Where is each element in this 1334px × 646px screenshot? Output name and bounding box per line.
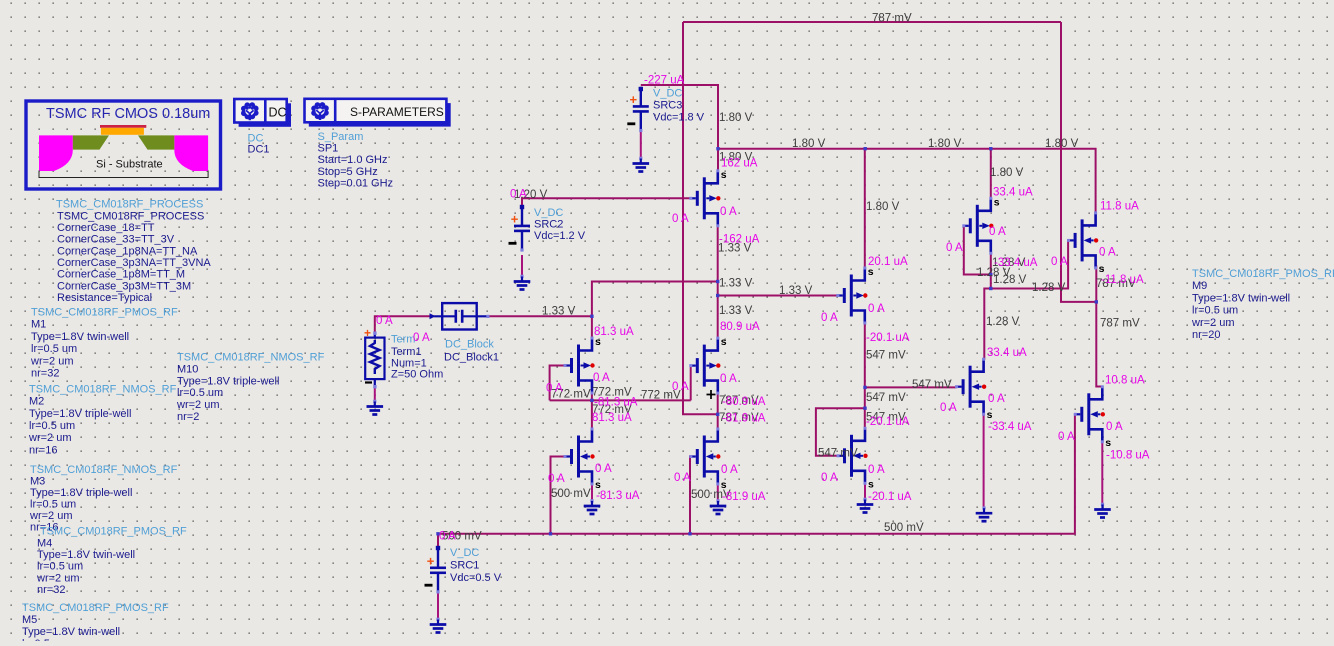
svg-text:s: s	[987, 409, 993, 421]
svg-text:1.33 V: 1.33 V	[542, 306, 576, 318]
wire 1.28V to M9 gate	[991, 240, 1069, 288]
node 1.28V	[989, 287, 992, 290]
substrate drawing right magenta well	[174, 135, 208, 171]
svg-text:-227 uA: -227 uA	[644, 75, 685, 87]
svg-text:1.28 V: 1.28 V	[1032, 282, 1066, 294]
M4 parameters text block	[36, 526, 187, 597]
svg-text:M1: M1	[31, 319, 46, 331]
S-parameters settings text	[318, 131, 394, 190]
svg-text:s: s	[721, 336, 727, 348]
wire 787mV top rail	[683, 21, 1061, 23]
wire SRC1 to rail	[437, 534, 439, 546]
svg-text:1.80 V: 1.80 V	[719, 112, 753, 124]
svg-text:162 uA: 162 uA	[721, 158, 758, 170]
svg-text:0 A: 0 A	[593, 372, 610, 384]
svg-text:CornerCase_1p8M=TT_M: CornerCase_1p8M=TT_M	[57, 269, 185, 281]
svg-text:+: +	[511, 211, 519, 226]
svg-text:Vdc=1.2 V: Vdc=1.2 V	[534, 230, 586, 242]
svg-text:wr=2 um: wr=2 um	[1191, 317, 1235, 329]
svg-text:547 mV: 547 mV	[912, 379, 952, 391]
svg-text:0 A: 0 A	[1058, 431, 1075, 443]
svg-text:33.4 uA: 33.4 uA	[993, 187, 1033, 199]
wire SRC2 bottom to ground	[521, 255, 523, 277]
transistor M6cas	[962, 196, 1000, 255]
svg-text:s: s	[721, 169, 727, 181]
svg-text:CornerCase_33=TT_3V: CornerCase_33=TT_3V	[57, 234, 175, 246]
M5 parameters text block	[22, 602, 169, 646]
svg-text:Type=1.8V twin-well: Type=1.8V twin-well	[22, 626, 120, 638]
svg-text:547 mV: 547 mV	[818, 447, 858, 459]
svg-text:TSMC RF CMOS 0.18um: TSMC RF CMOS 0.18um	[46, 106, 210, 122]
svg-text:CornerCase_1p8NA=TT_NA: CornerCase_1p8NA=TT_NA	[57, 245, 198, 257]
svg-text:nr=20: nr=20	[1192, 329, 1220, 341]
svg-text:-20.1 uA: -20.1 uA	[868, 491, 912, 503]
wire 500mV rail	[438, 414, 1075, 534]
node 1.28V gate tie	[989, 273, 992, 276]
svg-text:547 mV: 547 mV	[866, 392, 906, 404]
voltage source SRC1	[425, 546, 447, 594]
svg-text:1.28 V: 1.28 V	[986, 316, 1020, 328]
svg-text:1.33 V: 1.33 V	[719, 305, 753, 317]
wire M7 gate bias	[689, 457, 691, 534]
svg-text:Si - Substrate: Si - Substrate	[96, 159, 163, 171]
svg-text:0 A: 0 A	[821, 312, 838, 324]
svg-text:0 A: 0 A	[548, 473, 565, 485]
svg-text:TSMC_CM018RF_PMOS_RF: TSMC_CM018RF_PMOS_RF	[22, 602, 169, 614]
svg-text:CornerCase_18=TT: CornerCase_18=TT	[57, 222, 155, 234]
svg-text:TSMC_CM018RF_PROCESS: TSMC_CM018RF_PROCESS	[56, 199, 203, 211]
svg-text:wr=2 um: wr=2 um	[176, 399, 220, 411]
wire M9 source down	[1096, 266, 1102, 387]
capacitor DC_Block1	[430, 303, 490, 329]
svg-text:11.8 uA: 11.8 uA	[1100, 201, 1139, 213]
termination Term1	[364, 326, 385, 388]
S-PARAMETERS simulation controller block	[305, 99, 451, 127]
svg-text:-80.9 uA: -80.9 uA	[722, 396, 766, 408]
wire 1.33V to M2 source	[591, 316, 593, 338]
node 772mV at M2 drain	[590, 399, 593, 402]
transistor M7	[689, 428, 727, 492]
Term1 text	[391, 334, 443, 381]
transistor M6	[689, 336, 727, 395]
svg-text:TSMC_CM018RF_NMOS_RF: TSMC_CM018RF_NMOS_RF	[30, 464, 178, 476]
svg-text:lr=0.5 um: lr=0.5 um	[37, 561, 83, 573]
wire M5cur source to ground	[864, 483, 866, 499]
wire M8 source riser	[864, 149, 866, 268]
svg-text:SRC1: SRC1	[450, 560, 479, 572]
node 787mV at M9 source	[1095, 300, 1098, 303]
svg-text:0 A: 0 A	[1051, 256, 1068, 268]
svg-text:0 A: 0 A	[672, 381, 689, 393]
svg-text:0 A: 0 A	[946, 242, 963, 254]
svg-text:0 A: 0 A	[720, 206, 737, 218]
transistor M1	[689, 169, 727, 228]
svg-text:nr=32: nr=32	[37, 584, 65, 596]
svg-text:lr=0.5 um: lr=0.5 um	[30, 498, 76, 510]
wire SRC3 bottom to ground	[640, 128, 642, 159]
process box title	[46, 106, 210, 122]
M9 parameters text block	[1191, 268, 1334, 341]
svg-text:lr=0.5 um: lr=0.5 um	[177, 387, 223, 399]
transistor M9	[1067, 211, 1105, 275]
svg-text:+: +	[364, 326, 371, 340]
process parameters text block	[56, 199, 211, 304]
svg-text:Start=1.0 GHz: Start=1.0 GHz	[318, 154, 388, 166]
wire 1.33V riser	[592, 282, 718, 317]
svg-text:547 mV: 547 mV	[866, 349, 906, 361]
substrate drawing left magenta well	[39, 135, 73, 171]
wire M4 drain riser	[984, 289, 991, 360]
svg-text:80.9 uA: 80.9 uA	[720, 321, 760, 333]
svg-text:0 A: 0 A	[546, 383, 563, 395]
svg-text:TSMC_CM018RF_PMOS_RF: TSMC_CM018RF_PMOS_RF	[1192, 268, 1334, 280]
svg-text:Resistance=Typical: Resistance=Typical	[57, 292, 152, 304]
ground under M7	[710, 499, 727, 514]
svg-text:1.33 V: 1.33 V	[779, 285, 813, 297]
svg-text:0 A: 0 A	[674, 472, 691, 484]
transistor M8	[836, 266, 874, 325]
plus marker near output node	[707, 390, 716, 399]
wire M4 source to ground	[983, 414, 985, 508]
svg-text:nr=16: nr=16	[29, 444, 57, 456]
M3 parameters text block	[29, 464, 178, 533]
svg-text:Term: Term	[391, 334, 415, 346]
svg-text:-81.9 uA: -81.9 uA	[722, 491, 766, 503]
svg-text:0 A: 0 A	[988, 393, 1005, 405]
svg-text:TSMC_CM018RF_PMOS_RF: TSMC_CM018RF_PMOS_RF	[40, 526, 187, 538]
svg-text:0 A: 0 A	[720, 373, 737, 385]
substrate label Si - Substrate	[96, 159, 163, 171]
svg-text:500 mV: 500 mV	[884, 522, 924, 534]
wire M10out source to ground	[1101, 442, 1103, 505]
node 547mV	[863, 386, 866, 389]
svg-text:TSMC_CM018RF_PMOS_RF: TSMC_CM018RF_PMOS_RF	[31, 307, 178, 319]
svg-text:Type=1.8V triple-well: Type=1.8V triple-well	[30, 487, 132, 499]
svg-text:-20.1 uA: -20.1 uA	[866, 416, 910, 428]
wire SRC3 to 1.80V corner	[641, 85, 718, 149]
svg-text:DC_Block1: DC_Block1	[444, 352, 499, 364]
svg-text:1.80 V: 1.80 V	[990, 167, 1024, 179]
svg-text:SRC3: SRC3	[653, 100, 682, 112]
svg-text:-81.9 uA: -81.9 uA	[722, 413, 766, 425]
svg-text:1.80 V: 1.80 V	[928, 138, 962, 150]
svg-text:0 A: 0 A	[672, 213, 689, 225]
svg-text:-33.4 uA: -33.4 uA	[994, 257, 1038, 269]
substrate outline	[39, 171, 208, 178]
svg-text:0 A: 0 A	[1106, 421, 1123, 433]
node 500mV rail at SRC1	[436, 532, 439, 535]
ground under SRC1	[430, 618, 447, 633]
M10 parameters text block	[176, 352, 325, 424]
svg-text:+: +	[630, 92, 638, 107]
svg-text:0 A: 0 A	[1099, 247, 1116, 259]
M1 parameters text block	[30, 307, 178, 380]
svg-text:M3: M3	[30, 475, 45, 487]
svg-text:CornerCase_3p3M=TT_3M: CornerCase_3p3M=TT_3M	[57, 280, 191, 292]
wire 787mV left drop to output node	[683, 22, 718, 414]
voltage source SRC2	[509, 205, 531, 252]
wire SRC2 to M1 gate	[522, 198, 691, 205]
svg-text:wr=2 um: wr=2 um	[29, 510, 73, 522]
substrate drawing left olive diffusion	[73, 135, 109, 149]
wire M7 source to ground	[717, 484, 719, 501]
svg-text:M10: M10	[177, 363, 198, 375]
node 1.80V at M1	[716, 147, 719, 150]
wire Term input top	[375, 316, 434, 333]
substrate drawing right olive diffusion	[138, 135, 174, 149]
svg-text:1.28 V: 1.28 V	[993, 274, 1027, 286]
svg-text:-81.3 uA: -81.3 uA	[594, 397, 638, 409]
wire 787mV right drop	[1061, 22, 1096, 302]
svg-text:-81.3 uA: -81.3 uA	[596, 490, 640, 502]
substrate drawing orange gate	[101, 128, 144, 135]
svg-text:Vdc=0.5 V: Vdc=0.5 V	[450, 572, 502, 584]
svg-text:-162 uA: -162 uA	[719, 234, 760, 246]
svg-text:lr=0.5 um: lr=0.5 um	[31, 343, 77, 355]
svg-text:Type=1.8V twin-well: Type=1.8V twin-well	[31, 331, 129, 343]
svg-text:Type=1.8V twin-well: Type=1.8V twin-well	[37, 549, 135, 561]
svg-text:Step=0.01 GHz: Step=0.01 GHz	[318, 178, 394, 190]
node 1.33V gate branch	[716, 294, 719, 297]
svg-text:787 mV: 787 mV	[1100, 318, 1140, 330]
wire M8 drain chain	[864, 323, 866, 428]
svg-text:0 A: 0 A	[868, 303, 885, 315]
svg-text:0 A: 0 A	[439, 531, 456, 543]
wire DC_Block output to 1.33V node	[488, 315, 592, 317]
svg-text:33.4 uA: 33.4 uA	[987, 347, 1027, 359]
svg-text:-11.8 uA: -11.8 uA	[1101, 274, 1144, 286]
wire 1.80V to M1 source	[717, 149, 719, 171]
wire M6 gate riser	[690, 366, 692, 401]
wire M3 source to ground	[591, 484, 593, 501]
wire 772mV horizontal	[550, 399, 691, 401]
svg-text:Type=1.8V triple-well: Type=1.8V triple-well	[177, 375, 279, 387]
svg-text:SRC2: SRC2	[534, 219, 563, 231]
wire Term bottom to ground	[374, 387, 376, 402]
wire M6cas source riser	[990, 149, 992, 199]
svg-text:s: s	[868, 478, 874, 490]
svg-text:20.1 uA: 20.1 uA	[868, 256, 908, 268]
svg-text:81.3 uA: 81.3 uA	[594, 326, 634, 338]
transistor M5	[837, 427, 875, 491]
svg-text:0 A: 0 A	[376, 315, 393, 327]
svg-text:+: +	[427, 553, 435, 568]
svg-text:s: s	[1105, 437, 1111, 449]
svg-text:0 A: 0 A	[413, 332, 430, 344]
ground under M10out	[1094, 503, 1111, 518]
svg-text:V_DC: V_DC	[534, 207, 563, 219]
svg-text:V_DC: V_DC	[450, 547, 479, 559]
svg-text:0 A: 0 A	[940, 402, 957, 414]
V_DC SRC1 text	[450, 547, 502, 584]
svg-text:wr=2 um: wr=2 um	[28, 432, 72, 444]
svg-text:SP1: SP1	[318, 143, 339, 155]
svg-text:TSMC_CM018RF_NMOS_RF: TSMC_CM018RF_NMOS_RF	[177, 352, 325, 364]
node 1.33V top	[716, 280, 719, 283]
transistor M10out	[1074, 385, 1112, 449]
svg-text:Vdc=1.8 V: Vdc=1.8 V	[653, 112, 705, 124]
svg-text:10.8 uA: 10.8 uA	[1105, 375, 1145, 387]
wire 1.80V rail	[718, 149, 1096, 214]
svg-text:0 A: 0 A	[989, 226, 1006, 238]
ground under M5cur	[857, 498, 874, 513]
wire M5cur gate loop	[816, 408, 865, 456]
ground under M3	[584, 499, 601, 514]
process box TSMC RF CMOS 0.18um frame	[26, 101, 221, 189]
svg-text:DC_Block: DC_Block	[445, 339, 494, 351]
svg-text:TSMC_CM018RF_NMOS_RF: TSMC_CM018RF_NMOS_RF	[29, 383, 177, 395]
svg-text:0 A: 0 A	[821, 472, 838, 484]
transistor M4	[955, 358, 993, 422]
V_DC SRC3 text	[653, 88, 705, 124]
svg-text:wr=2 um: wr=2 um	[30, 355, 74, 367]
svg-text:CornerCase_3p3NA=TT_3VNA: CornerCase_3p3NA=TT_3VNA	[57, 257, 211, 269]
wire SRC1 bottom to ground	[437, 592, 439, 620]
node 1.80V at M8 riser	[864, 147, 867, 150]
wire M2 drain to 772mV node	[591, 393, 593, 429]
svg-text:0 A: 0 A	[510, 189, 527, 201]
wire 1.33V branch to M8 gate	[718, 295, 838, 297]
node 500mV rail at M3	[549, 532, 552, 535]
svg-text:-10.8 uA: -10.8 uA	[1106, 450, 1150, 462]
svg-text:500 mV: 500 mV	[551, 488, 591, 500]
ground under M4	[976, 506, 993, 521]
svg-text:DC: DC	[269, 105, 287, 119]
svg-text:1.33 V: 1.33 V	[719, 277, 753, 289]
M2 parameters text block	[28, 383, 177, 456]
svg-text:V_DC: V_DC	[653, 88, 682, 100]
svg-text:787 mV: 787 mV	[872, 13, 912, 25]
voltage source SRC3	[627, 87, 649, 132]
svg-text:0 A: 0 A	[721, 464, 738, 476]
ground under SRC3	[633, 157, 650, 172]
wire 547mV to M4 gate	[865, 386, 957, 388]
voltage annotations	[442, 13, 1140, 543]
wire output node to M7 drain	[717, 393, 719, 429]
svg-text:lr=0.5 um: lr=0.5 um	[1192, 305, 1238, 317]
svg-text:nr=32: nr=32	[31, 368, 59, 380]
svg-text:S_Param: S_Param	[318, 131, 364, 143]
node 500mV rail at M7	[688, 532, 691, 535]
svg-text:DC1: DC1	[248, 143, 270, 155]
DC simulation controller block	[234, 99, 291, 127]
DC_Block1 text	[444, 339, 499, 364]
wire M2 gate feedback	[550, 366, 565, 401]
ground under Term1	[367, 400, 384, 415]
svg-text:1.80 V: 1.80 V	[866, 201, 900, 213]
svg-text:TSMC_CM018RF_PROCESS: TSMC_CM018RF_PROCESS	[57, 210, 204, 222]
svg-text:Type=1.8V triple-well: Type=1.8V triple-well	[29, 408, 131, 420]
svg-text:1.80 V: 1.80 V	[792, 138, 826, 150]
current annotations	[376, 75, 1150, 543]
wire M1 drain chain to 1.33V	[717, 225, 719, 338]
V_DC SRC2 text	[534, 207, 586, 242]
svg-text:S-PARAMETERS: S-PARAMETERS	[350, 105, 444, 119]
wire M3 gate bias	[551, 457, 566, 534]
transistor M3	[564, 428, 602, 492]
svg-text:M5: M5	[22, 614, 37, 626]
svg-text:81.3 uA: 81.3 uA	[592, 412, 632, 424]
substrate drawing gate red cap	[100, 125, 146, 128]
svg-text:wr=2 um: wr=2 um	[36, 572, 80, 584]
svg-text:lr=0.5 um: lr=0.5 um	[29, 420, 75, 432]
svg-text:Stop=5 GHz: Stop=5 GHz	[318, 166, 378, 178]
transistor M2	[564, 336, 602, 395]
svg-text:0 A: 0 A	[868, 464, 885, 476]
wire M6cas gate tie	[964, 226, 991, 275]
svg-text:Term1: Term1	[391, 346, 422, 358]
svg-text:M9: M9	[1192, 280, 1207, 292]
svg-text:1.80 V: 1.80 V	[1045, 138, 1079, 150]
node output 787mV	[716, 413, 719, 416]
ground under SRC2	[514, 275, 531, 290]
svg-text:nr=2: nr=2	[177, 411, 199, 423]
wire M6cas drain drop	[990, 253, 992, 288]
node 1.33V input	[590, 315, 593, 318]
node 1.80V at M6cas riser	[989, 147, 992, 150]
node 547mV loop	[863, 407, 866, 410]
svg-text:-33.4 uA: -33.4 uA	[988, 421, 1032, 433]
svg-text:-20.1 uA: -20.1 uA	[866, 332, 910, 344]
svg-text:Type=1.8V twin-well: Type=1.8V twin-well	[1192, 292, 1290, 304]
svg-text:M2: M2	[29, 396, 44, 408]
DC controller name text	[248, 132, 270, 155]
svg-text:Z=50 Ohm: Z=50 Ohm	[391, 369, 443, 381]
svg-text:0 A: 0 A	[595, 463, 612, 475]
svg-text:M4: M4	[37, 537, 52, 549]
